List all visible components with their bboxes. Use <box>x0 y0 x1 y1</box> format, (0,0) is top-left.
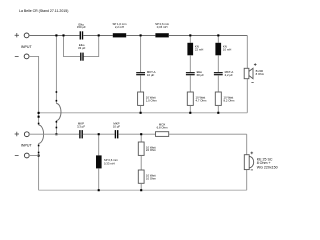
svg-text:8 Ohm +: 8 Ohm + <box>257 161 271 165</box>
svg-text:INPUT: INPUT <box>21 144 33 148</box>
wire from plus rail to inductor <box>98 134 100 155</box>
inductor KN 22mH <box>187 43 203 56</box>
plus rail right to tweeter <box>169 133 247 135</box>
svg-text:150 µF: 150 µF <box>77 25 86 29</box>
wire inductor to bottom rail <box>98 168 100 190</box>
wire top rail right <box>169 35 248 37</box>
junction dots bottom rail (top section) <box>38 112 220 118</box>
bottom rail (top section) <box>39 112 248 114</box>
wire top rail mid <box>83 35 113 37</box>
svg-text:0,33 mH: 0,33 mH <box>104 162 115 166</box>
bottom rail (lower section) <box>39 189 247 191</box>
wire return from top minus input down left side <box>29 56 44 190</box>
wire resistor to bottom rail <box>140 183 142 190</box>
svg-text:1,0 Ohm: 1,0 Ohm <box>146 98 158 102</box>
capacitor C1 Elko 150uF (series, top rail) <box>77 22 86 39</box>
wire capacitor to resistor <box>189 75 191 92</box>
shunt branch: resistors 22 Ohm + 10 Ohm <box>138 134 156 190</box>
shunt branch: inductor SP 0,6mm 0,33mH <box>96 134 119 190</box>
inductor KN 10mH <box>215 43 231 56</box>
inductor L1 SP 1,0mm 2,2mH (series, top rail) <box>112 22 127 37</box>
wire top rail between L1 and L2 <box>126 35 155 37</box>
plus rail (lower section) left <box>29 133 79 135</box>
wire resistor to bottom rail <box>217 105 219 112</box>
capacitor Elko 68uF <box>186 70 204 77</box>
svg-text:4,7 Ohm: 4,7 Ohm <box>196 98 208 102</box>
wire from plus rail to resistor <box>140 134 142 142</box>
shunt branch: KN 10mH + MKT-A 2,2uF + 8,2 Ohm <box>214 35 235 112</box>
small dots on left return wire <box>38 123 40 157</box>
svg-text:La Belle CR (Stand 27.11.2015): La Belle CR (Stand 27.11.2015) <box>19 9 68 13</box>
junction dots top rail <box>55 34 219 36</box>
wire feeder from top rail to lower section <box>56 35 61 134</box>
shunt branch: MKT-A 10uF + 1,0 Ohm <box>136 35 157 112</box>
plus rail segment <box>83 133 115 135</box>
junction dots bottom rail (lower section) <box>98 189 143 191</box>
svg-text:10 Ohm: 10 Ohm <box>146 176 157 180</box>
capacitor C2 Elko 33uF (parallel branch) <box>78 43 86 61</box>
wire capacitor to resistor <box>217 75 219 92</box>
wire resistor to bottom rail <box>140 105 142 112</box>
svg-text:8,2 Ohm: 8,2 Ohm <box>224 98 236 102</box>
wire woofer feed <box>246 35 248 112</box>
wire between resistors <box>140 155 142 170</box>
resistor 10 Watt 1,0 Ohm <box>138 92 158 105</box>
svg-text:22 Ohm: 22 Ohm <box>146 148 157 152</box>
wire capacitor to resistor <box>140 75 142 92</box>
svg-text:0,15 mH: 0,15 mH <box>157 25 168 29</box>
wire from top rail to inductor <box>217 35 219 42</box>
svg-text:WG 220x150: WG 220x150 <box>257 166 278 170</box>
resistor MOX 6,8 Ohm (series) <box>156 123 169 137</box>
wire inductor to capacitor <box>189 55 191 72</box>
wire parallel cap branch <box>64 35 99 56</box>
wire from top rail to inductor <box>189 35 191 42</box>
wire from top rail to capacitor <box>140 35 142 72</box>
wire top rail left <box>29 35 80 37</box>
inductor L2 SP 0,6mm 0,15mH (series, top rail) <box>155 22 170 37</box>
capacitor MKP 3,3uF (series, lower rail) <box>77 122 85 139</box>
svg-text:68 µF: 68 µF <box>197 73 205 77</box>
input terminal - (bottom) <box>15 153 29 158</box>
capacitor MKT-A 10uF <box>136 70 155 77</box>
svg-text:6,8 Ohm: 6,8 Ohm <box>157 126 169 130</box>
capacitor MKP 10uF (series, lower rail) <box>113 122 121 139</box>
svg-text:33 µF: 33 µF <box>78 46 86 50</box>
wire tweeter feed <box>246 134 248 190</box>
speaker B200 (woofer) <box>244 63 265 82</box>
resistor 10 Watt 10 Ohm <box>138 170 156 183</box>
svg-text:8 Ohm: 8 Ohm <box>256 72 265 76</box>
svg-text:10 mH: 10 mH <box>223 47 231 51</box>
resistor 10 Watt 8,2 Ohm <box>215 92 235 105</box>
inductor SP 0,6mm 0,33mH <box>96 155 119 168</box>
input terminal + (top) <box>15 33 29 38</box>
svg-text:10 µF: 10 µF <box>147 73 155 77</box>
svg-text:3,3 µF: 3,3 µF <box>77 125 85 129</box>
svg-text:2,2 µF: 2,2 µF <box>225 73 233 77</box>
svg-text:INPUT: INPUT <box>21 45 33 49</box>
speaker KE 25 SC (tweeter) <box>244 152 277 170</box>
svg-text:22 mH: 22 mH <box>195 47 203 51</box>
svg-text:10 µF: 10 µF <box>113 125 121 129</box>
wire from bottom minus input <box>29 155 39 157</box>
input terminal + (bottom) <box>15 132 30 137</box>
plus rail segment to MOX <box>118 133 155 135</box>
input terminal - (top) <box>15 54 29 59</box>
shunt branch: KN 22mH + Elko 68uF + 4,7 Ohm <box>186 35 207 112</box>
wire resistor to bottom rail <box>189 105 191 112</box>
small dots on feeder wire <box>55 91 57 135</box>
resistor 10 Watt 22 Ohm <box>138 142 156 155</box>
junction dots plus rail (lower section) <box>98 133 143 135</box>
capacitor MKT-A 2,2uF <box>214 70 233 77</box>
wire inductor to capacitor <box>217 55 219 72</box>
svg-text:2,2 mH: 2,2 mH <box>115 25 124 29</box>
resistor 10 Watt 4,7 Ohm <box>187 92 207 105</box>
